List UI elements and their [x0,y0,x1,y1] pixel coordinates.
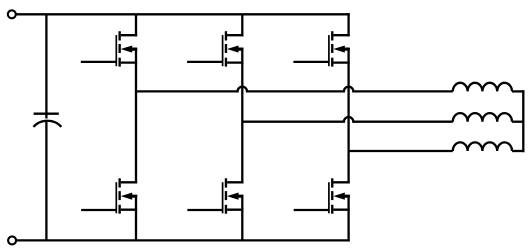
Q1 body-source tie wire [131,48,137,50]
Q5 body arrow [227,193,243,200]
Q3 gate electrode line [328,35,330,66]
wire: Q3 gate lead [293,61,329,63]
Q1 source stub [121,61,137,63]
Q6 gate electrode line [328,182,330,213]
wire: neutral point bus (star point) [522,90,524,152]
wire: bottom DC bus (-) from terminal to leg 3 [17,239,350,241]
Q3 channel bar drain segment [331,31,333,40]
wire: L1 to neutral [512,90,524,92]
Q6 source stub [333,209,349,211]
inductor L1 (phase A winding) [453,83,512,92]
MOSFET Q2 (top, phase B high side) [223,31,244,66]
wire: L3 to neutral [512,150,524,152]
inductor L2 (phase B winding) [453,113,512,122]
Q1 body arrow (points to channel) [121,45,137,52]
Q6 channel bar source segment [331,205,333,214]
Q6 drain stub [333,181,349,183]
Q2 source stub [227,61,243,63]
MOSFET Q4 (bottom, phase A low side) [116,178,137,213]
Q2 channel bar body segment [225,44,227,53]
Q4 gate electrode line [115,182,117,213]
Q3 drain stub [333,34,349,36]
Q4 drain stub [121,181,137,183]
Q2 body-source tie wire [237,48,243,50]
wire: leg 3 drain link (top bus to Q3 drain) [347,13,349,36]
Q3 body-source tie wire [344,48,350,50]
wire: top DC bus (+) from terminal to leg 3 [16,13,350,15]
Q2 body arrow [227,45,243,52]
wire: leg 1 midpoint (Q1 source to Q4 drain, node A) [135,48,137,184]
wire: C1 bottom lead to - bus [45,122,47,240]
wire: Q4 gate lead [81,209,116,211]
Q2 channel bar source segment [225,58,227,67]
wire: C1 top lead from + bus [45,14,47,118]
Q1 channel bar body segment [118,44,120,53]
MOSFET Q6 (bottom, phase C low side) [329,178,350,213]
wire: L2 to neutral [512,121,524,123]
Q5 channel bar body segment [225,191,227,200]
MOSFET Q3 (top, phase C high side) [329,31,350,66]
wire: Q4 source to bottom bus [135,195,137,240]
Q2 gate electrode line [222,35,224,66]
Q4 channel bar source segment [118,205,120,214]
terminal DC+ (top left input terminal) [8,10,16,18]
Q4 channel bar body segment [118,191,120,200]
MOSFET Q5 (bottom, phase B low side) [223,178,244,213]
capacitor C1 (DC-link electrolytic) [33,14,61,240]
wire: phase C line (node C to L3) [349,150,453,152]
Q5 drain stub [227,181,243,183]
terminal DC- (bottom left input terminal) [8,236,16,244]
Q6 body arrow [333,193,349,200]
Q4 body arrow [121,193,137,200]
MOSFET Q1 (top, phase A high side) [116,31,137,66]
Q4 source stub [121,209,137,211]
Q2 drain stub [227,34,243,36]
Q6 channel bar drain segment [331,178,333,187]
Q5 gate electrode line [222,182,224,213]
Q1 drain stub [121,34,137,36]
Q5 body-source tie wire [237,195,243,197]
wire: leg 1 drain link (top bus to Q1 drain) [135,14,137,36]
Q4 body-source tie wire [131,195,137,197]
Q3 channel bar source segment [331,58,333,67]
wire: Q5 gate lead [187,209,222,211]
Q1 channel bar source segment [118,58,120,67]
wire: leg 3 midpoint (Q3 source to Q6 drain, node C) [347,48,349,184]
Q6 channel bar body segment [331,191,333,200]
Q3 source stub [333,61,349,63]
Q5 channel bar drain segment [225,178,227,187]
wire: phase B line (node B to L2) with hop over leg 3 [242,117,452,122]
wire: Q6 gate lead [294,209,329,211]
Q1 channel bar drain segment [118,31,120,40]
Q6 body-source tie wire [344,195,350,197]
wire: Q6 source to bottom bus [347,195,349,242]
Q4 channel bar drain segment [118,178,120,187]
Q3 body arrow [333,45,349,52]
C1 negative plate (curved) [33,121,61,127]
wire: Q1 gate lead [81,61,117,63]
Q1 gate electrode line [115,35,117,66]
wire: leg 2 midpoint (Q2 source to Q5 drain, node B) [241,48,243,184]
wire: Q2 gate lead [187,61,223,63]
Q5 channel bar source segment [225,205,227,214]
C1 positive plate (flat) [34,113,59,115]
Q5 source stub [227,209,243,211]
inductor L3 (phase C winding) [453,142,512,151]
wire: Q5 source to bottom bus [241,195,243,240]
Q2 channel bar drain segment [225,31,227,40]
Q3 channel bar body segment [331,44,333,53]
wire: phase A line (node A to L1) with hops over legs 2 and 3 [136,87,453,92]
wire: leg 2 drain link (top bus to Q2 drain) [241,14,243,36]
